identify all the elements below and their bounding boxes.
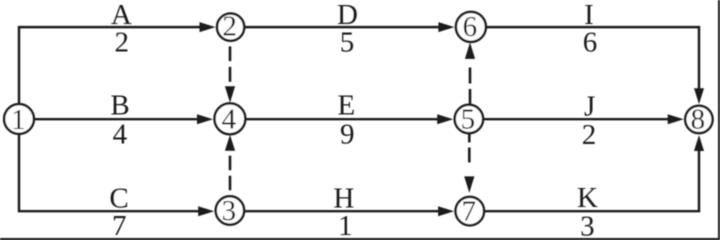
svg-text:1: 1 — [11, 104, 26, 136]
svg-text:6: 6 — [583, 26, 598, 58]
svg-text:E: E — [338, 90, 356, 122]
svg-text:9: 9 — [340, 119, 355, 151]
svg-text:7: 7 — [462, 195, 477, 227]
svg-text:5: 5 — [340, 26, 355, 58]
svg-text:2: 2 — [115, 26, 130, 58]
svg-text:4: 4 — [222, 104, 237, 136]
svg-text:5: 5 — [461, 103, 476, 135]
svg-text:2: 2 — [582, 119, 597, 151]
svg-text:J: J — [584, 91, 595, 123]
svg-text:3: 3 — [580, 210, 595, 240]
svg-text:7: 7 — [112, 210, 127, 240]
svg-text:4: 4 — [113, 119, 128, 151]
svg-text:B: B — [110, 90, 129, 122]
svg-text:8: 8 — [691, 104, 706, 136]
svg-text:3: 3 — [222, 195, 237, 227]
svg-text:1: 1 — [338, 210, 353, 240]
svg-text:2: 2 — [222, 11, 237, 43]
svg-text:6: 6 — [463, 11, 478, 43]
svg-text:K: K — [577, 182, 598, 214]
